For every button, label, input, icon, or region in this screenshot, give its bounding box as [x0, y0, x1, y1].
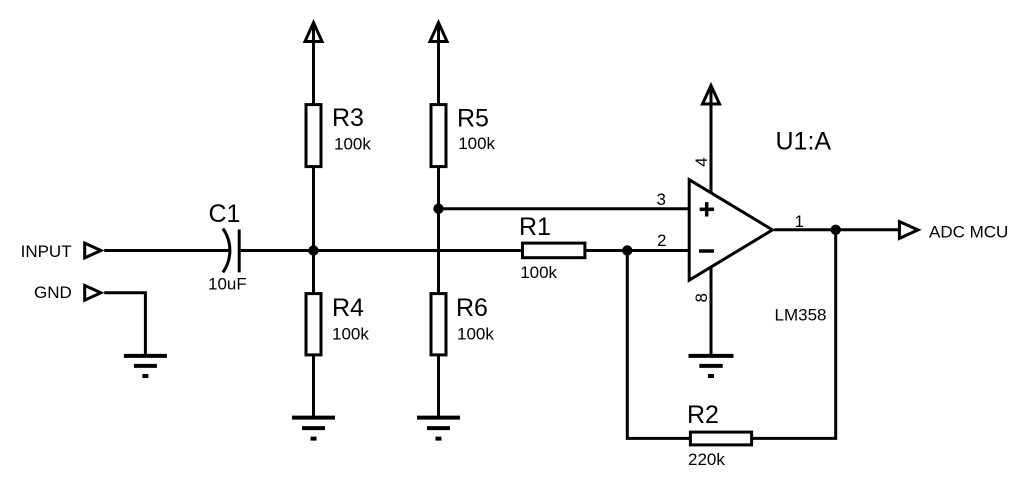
- resistor R6 body: [431, 294, 446, 355]
- junction node: main wire and R3/R4 column: [308, 245, 318, 255]
- ground symbol under R6: [417, 418, 460, 439]
- wire: R6 bottom to ground: [437, 355, 440, 418]
- svg-text:2: 2: [657, 231, 666, 250]
- wire: INPUT to capacitor C1: [104, 249, 229, 252]
- svg-text:100k: 100k: [457, 324, 494, 343]
- op-amp U1 triangle: [689, 180, 772, 281]
- svg-text:R2: R2: [687, 401, 719, 429]
- resistor R1 body: [523, 243, 585, 258]
- junction node: output / feedback: [831, 225, 841, 235]
- svg-text:220k: 220k: [688, 450, 725, 469]
- wire: R2 to output node: [753, 230, 836, 439]
- wire: GND terminal to ground: [104, 293, 145, 356]
- svg-text:R4: R4: [332, 294, 364, 322]
- wire: feedback down from pin2 node to R2: [627, 251, 689, 439]
- svg-text:ADC MCU: ADC MCU: [929, 222, 1008, 241]
- resistor R3 body: [306, 105, 321, 167]
- svg-text:R1: R1: [519, 213, 551, 241]
- svg-text:U1:A: U1:A: [776, 128, 832, 156]
- wire: R3 bottom through main node to R4 top: [312, 167, 315, 294]
- wire: pin 3 from R5/R6 node to op-amp: [439, 207, 690, 210]
- svg-text:4: 4: [692, 157, 711, 166]
- power arrow above R5: [437, 24, 440, 104]
- wire: op-amp pin 8 to ground: [710, 265, 713, 356]
- terminal ADC MCU triangle: [899, 222, 918, 239]
- power arrow above R3: [312, 24, 315, 104]
- svg-text:1: 1: [795, 212, 804, 231]
- junction node: pin 2 / feedback: [622, 245, 632, 255]
- power arrow above op-amp pin 4: [710, 86, 713, 195]
- svg-text:100k: 100k: [458, 134, 495, 153]
- capacitor C1 curved plate: [223, 229, 230, 273]
- svg-text:R6: R6: [456, 294, 488, 322]
- resistor R5 body: [431, 105, 446, 167]
- junction node: R5/R6 divider to pin 3 wire: [433, 204, 443, 214]
- ground symbol under op-amp: [689, 356, 734, 376]
- svg-text:100k: 100k: [334, 135, 371, 154]
- resistor R4 body: [306, 294, 321, 355]
- svg-text:100k: 100k: [520, 263, 557, 282]
- terminal GND triangle: [85, 285, 101, 300]
- wire: op-amp output to ADC terminal: [774, 228, 899, 231]
- svg-text:R5: R5: [457, 104, 489, 132]
- svg-text:GND: GND: [34, 283, 72, 302]
- ground symbol at GND terminal: [124, 356, 167, 376]
- svg-text:INPUT: INPUT: [21, 242, 72, 261]
- svg-text:10uF: 10uF: [208, 274, 247, 293]
- wire: capacitor C1 to resistor R1 (main node wire): [241, 249, 521, 252]
- ground symbol under R4: [292, 418, 335, 439]
- op-amp plus input symbol: [700, 202, 714, 216]
- svg-text:C1: C1: [209, 200, 241, 228]
- wire: R1 to op-amp pin 2: [586, 249, 689, 252]
- svg-text:R3: R3: [332, 104, 364, 132]
- resistor R2 body: [690, 432, 751, 445]
- svg-text:8: 8: [692, 293, 711, 302]
- svg-text:LM358: LM358: [775, 306, 827, 325]
- capacitor C1 straight plate: [238, 230, 241, 273]
- svg-text:100k: 100k: [332, 324, 369, 343]
- op-amp minus input symbol: [699, 249, 714, 253]
- wire: R5 bottom through pin3 node, crossing main wire, to R6 top: [437, 167, 440, 294]
- svg-text:3: 3: [657, 190, 666, 209]
- terminal INPUT triangle: [85, 243, 101, 258]
- wire: R4 bottom to ground: [312, 355, 315, 418]
